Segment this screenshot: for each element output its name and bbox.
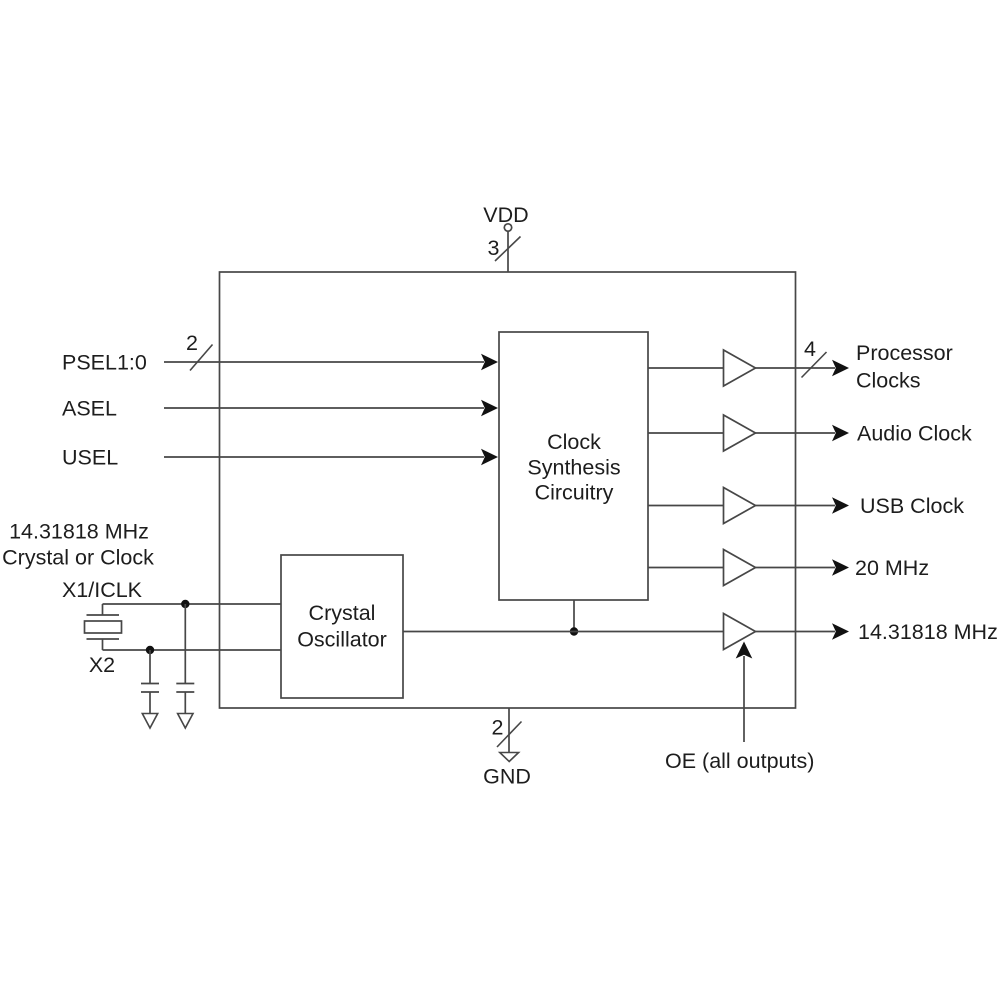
svg-text:Crystal: Crystal: [309, 601, 376, 625]
buffer B3: [724, 488, 756, 524]
wire OE control: [743, 656, 745, 742]
bus slash PSEL1:0: [190, 345, 213, 371]
arrowhead Audio Clock: [832, 425, 849, 442]
svg-text:PSEL1:0: PSEL1:0: [62, 351, 147, 375]
svg-text:ASEL: ASEL: [62, 397, 117, 421]
ground terminal GND: [500, 753, 519, 762]
node junction on 14.31818 net: [570, 627, 578, 635]
svg-text:4: 4: [804, 337, 816, 361]
wire oscillator output to buffer B5: [403, 631, 724, 633]
buffer B5: [724, 614, 756, 650]
chip boundary box: [220, 272, 796, 708]
ground for C1: [142, 714, 157, 729]
svg-text:Clocks: Clocks: [856, 369, 921, 393]
svg-text:VDD: VDD: [483, 203, 528, 227]
svg-text:X1/ICLK: X1/ICLK: [62, 578, 143, 602]
wire GND stem: [508, 708, 510, 753]
svg-text:USEL: USEL: [62, 446, 118, 470]
bus slash GND: [497, 722, 522, 748]
buffer B2: [724, 415, 756, 451]
wire U1 to buffer B3: [648, 505, 724, 507]
wire U1 to buffer B2: [648, 432, 724, 434]
svg-text:20 MHz: 20 MHz: [855, 556, 929, 580]
svg-text:Processor: Processor: [856, 341, 953, 365]
wire B1 to Processor Clocks: [756, 367, 836, 369]
arrowhead 20 MHz: [832, 559, 849, 576]
capacitor C2: [176, 604, 194, 714]
wire ASEL: [164, 407, 484, 409]
wire X1 to oscillator: [103, 603, 282, 605]
svg-text:OE (all outputs): OE (all outputs): [665, 749, 814, 773]
wire B4 to 20 MHz: [756, 567, 836, 569]
arrowhead 14.31818 MHz: [832, 623, 849, 640]
svg-text:3: 3: [488, 236, 500, 260]
arrowhead USB Clock: [832, 497, 849, 514]
node junction X1/C2: [181, 600, 189, 608]
buffer B4: [724, 550, 756, 586]
svg-text:X2: X2: [89, 653, 115, 677]
block U1 Clock Synthesis Circuitry: [499, 332, 648, 600]
svg-text:GND: GND: [483, 765, 531, 789]
node junction X2/C1: [146, 646, 154, 654]
wire B5 to 14.31818 MHz: [756, 631, 836, 633]
svg-text:Crystal or Clock: Crystal or Clock: [2, 546, 154, 570]
arrowhead Processor Clocks: [832, 360, 849, 377]
arrowhead USEL into U1: [481, 449, 498, 466]
svg-text:14.31818 MHz: 14.31818 MHz: [9, 520, 149, 544]
arrowhead ASEL into U1: [481, 400, 498, 417]
arrowhead PSEL1:0 into U1: [481, 354, 498, 371]
wire VDD to chip: [507, 231, 509, 272]
arrowhead OE into B5: [736, 642, 753, 659]
svg-text:Audio Clock: Audio Clock: [857, 422, 972, 446]
bus slash VDD: [495, 237, 521, 262]
block U2 Crystal Oscillator: [281, 555, 403, 698]
svg-text:Synthesis: Synthesis: [527, 456, 620, 480]
ground for C2: [178, 714, 193, 729]
wire B3 to USB Clock: [756, 505, 836, 507]
svg-text:2: 2: [186, 331, 198, 355]
svg-text:Oscillator: Oscillator: [297, 628, 387, 652]
svg-text:14.31818 MHz: 14.31818 MHz: [858, 620, 998, 644]
wire U1 to buffer B4: [648, 567, 724, 569]
crystal Y1: [85, 604, 122, 650]
svg-text:2: 2: [492, 716, 504, 740]
wire PSEL1:0: [164, 361, 484, 363]
power VDD terminal circle: [504, 224, 511, 231]
svg-text:Clock: Clock: [547, 430, 601, 454]
buffer B1: [724, 350, 756, 386]
svg-text:USB Clock: USB Clock: [860, 494, 964, 518]
capacitor C1: [141, 650, 159, 714]
svg-text:Circuitry: Circuitry: [535, 481, 614, 505]
label Crystal Oscillator: [297, 601, 387, 652]
bus slash Processor Clocks: [802, 352, 827, 378]
wire X2 to oscillator: [103, 649, 282, 651]
label Clock Synthesis Circuitry: [527, 430, 620, 505]
wire U1 to buffer B1: [648, 367, 724, 369]
wire B2 to Audio Clock: [756, 432, 836, 434]
wire U1 bottom to 14.31818 net: [573, 600, 575, 632]
wire USEL: [164, 456, 484, 458]
